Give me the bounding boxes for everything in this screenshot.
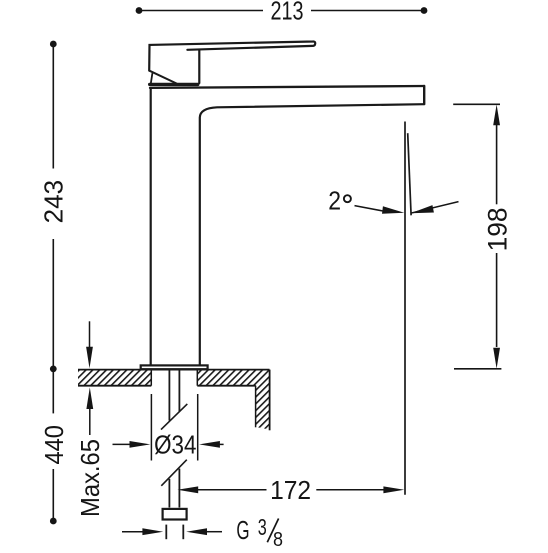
svg-text:Max.65: Max.65: [75, 439, 105, 517]
svg-text:3: 3: [258, 514, 267, 540]
svg-text:G: G: [236, 515, 249, 545]
svg-text:213: 213: [271, 0, 304, 26]
svg-text:440: 440: [39, 425, 69, 465]
svg-text:Ø34: Ø34: [154, 429, 196, 459]
svg-text:198: 198: [482, 207, 512, 251]
svg-text:2: 2: [328, 186, 341, 216]
svg-text:8: 8: [273, 528, 283, 548]
svg-text:172: 172: [270, 475, 311, 505]
svg-text:243: 243: [39, 180, 69, 224]
